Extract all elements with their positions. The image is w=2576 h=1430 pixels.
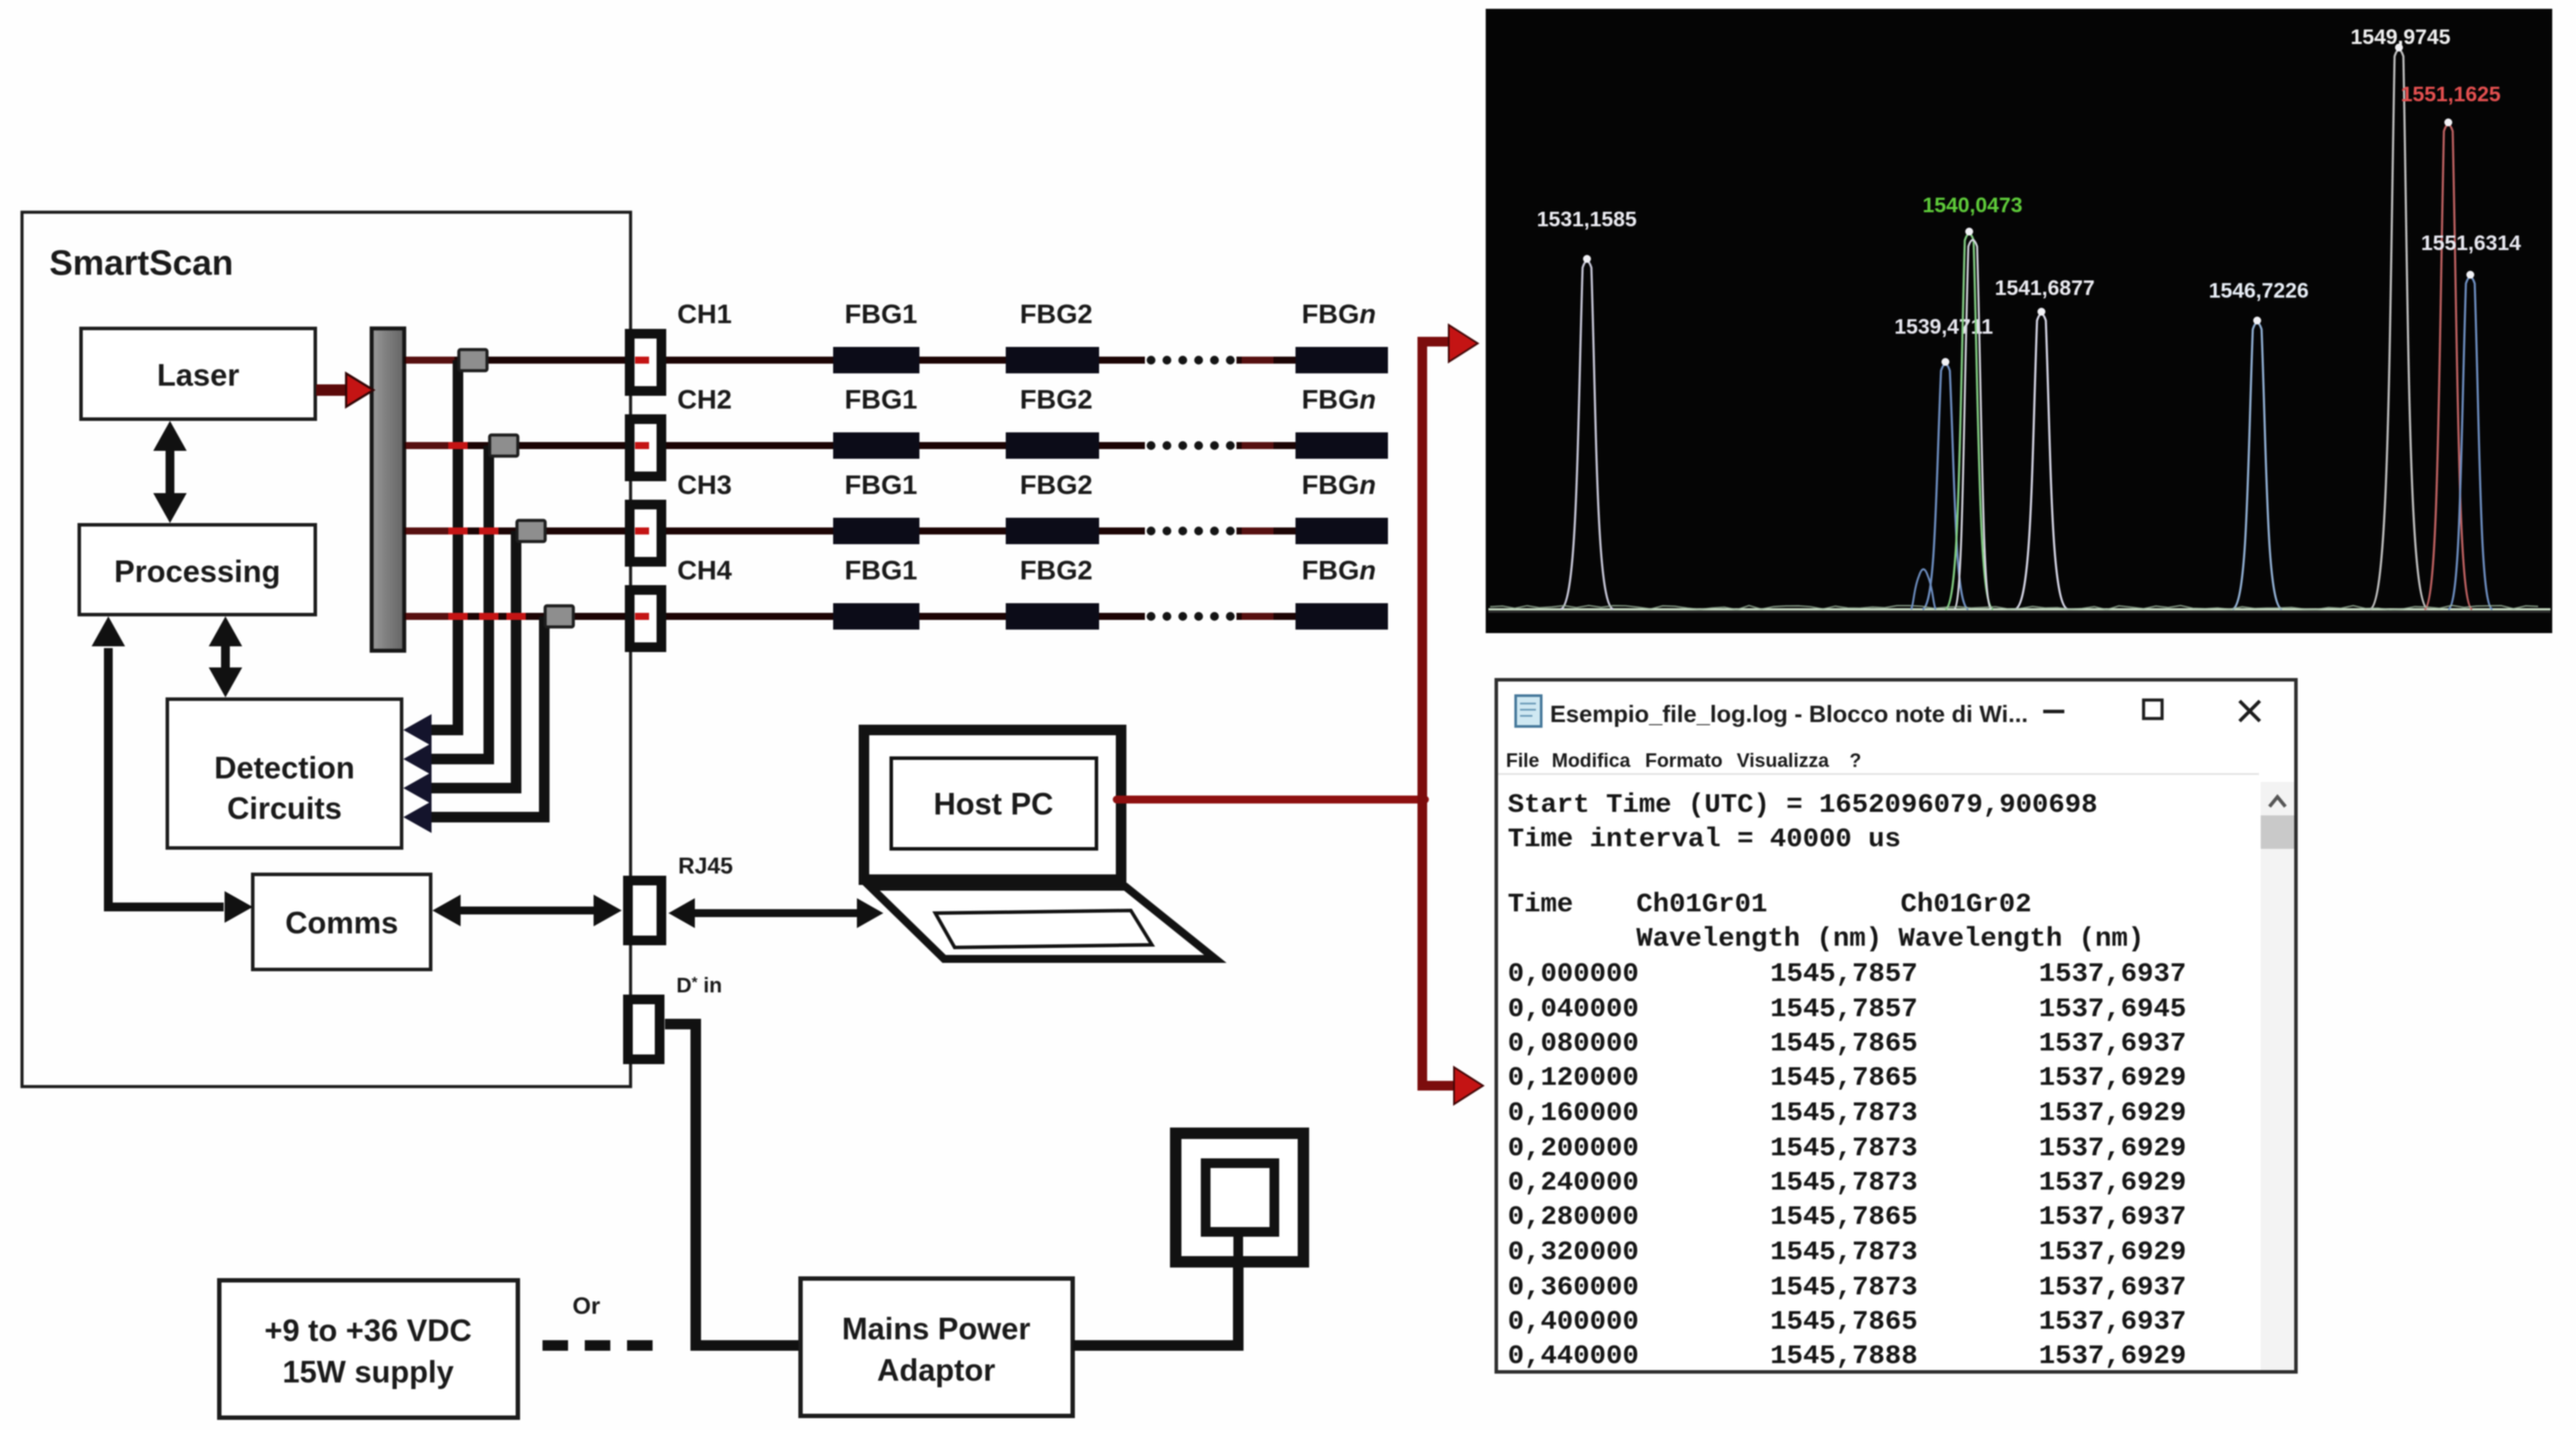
red crossing marks CH4 bbox=[448, 613, 526, 620]
white trace overlapping green peak bbox=[1954, 240, 1991, 610]
spectrum peak 1541,6877 bbox=[1995, 276, 2094, 609]
dots continuation CH2 bbox=[1147, 441, 1235, 450]
svg-text:D* in: D* in bbox=[676, 974, 722, 998]
svg-text:Circuits: Circuits bbox=[227, 792, 342, 826]
svg-text:0,240000: 0,240000 bbox=[1508, 1168, 1639, 1198]
dashed wire Or bbox=[543, 1340, 668, 1351]
svg-text:1551,6314: 1551,6314 bbox=[2421, 232, 2521, 255]
wire Mains Power Adaptor to wall plug bbox=[1073, 1255, 1238, 1345]
wire fibre channel CH2 bbox=[404, 442, 1295, 449]
arrow Processing-Detection bbox=[209, 616, 242, 697]
labels FBG1 FBG2 FBGn row 4 bbox=[845, 555, 1376, 586]
Notepad icon bbox=[1516, 696, 1541, 726]
spectrum peak 1549,9745 bbox=[2351, 26, 2450, 609]
svg-text:0,200000: 0,200000 bbox=[1508, 1133, 1639, 1164]
svg-text:1537,6937: 1537,6937 bbox=[2039, 959, 2186, 990]
spectrum peak 1539,4711 bbox=[1894, 315, 1993, 609]
svg-text:0,360000: 0,360000 bbox=[1508, 1272, 1639, 1303]
svg-text:Comms: Comms bbox=[285, 906, 398, 940]
svg-text:Visualizza: Visualizza bbox=[1737, 749, 1830, 771]
svg-text:1541,6877: 1541,6877 bbox=[1995, 276, 2094, 300]
svg-text:RJ45: RJ45 bbox=[678, 852, 733, 879]
svg-text:Mains Power: Mains Power bbox=[842, 1312, 1030, 1346]
svg-text:1545,7873: 1545,7873 bbox=[1770, 1272, 1917, 1303]
svg-text:0,120000: 0,120000 bbox=[1508, 1063, 1639, 1094]
svg-text:1537,6937: 1537,6937 bbox=[2039, 1307, 2186, 1338]
labels FBG1 FBG2 FBGn row 1 bbox=[845, 299, 1376, 329]
svg-text:Modifica: Modifica bbox=[1552, 749, 1631, 771]
svg-text:1537,6937: 1537,6937 bbox=[2039, 1272, 2186, 1303]
Notepad title bbox=[1550, 701, 2028, 727]
red crossing marks CH2 bbox=[448, 442, 468, 449]
svg-text:?: ? bbox=[1849, 749, 1861, 771]
wire return fibre CH2 to Detection Circuits bbox=[403, 446, 489, 775]
svg-text:1537,6937: 1537,6937 bbox=[2039, 1028, 2186, 1059]
spectrum peak 1551,6314 bbox=[2421, 232, 2521, 609]
svg-text:0,040000: 0,040000 bbox=[1508, 994, 1639, 1025]
optical splitter bar bbox=[372, 328, 404, 651]
svg-text:1549,9745: 1549,9745 bbox=[2351, 26, 2450, 49]
Notepad data rows bbox=[1508, 959, 2186, 1372]
svg-text:0,280000: 0,280000 bbox=[1508, 1202, 1639, 1233]
svg-text:FBG2: FBG2 bbox=[1020, 555, 1093, 586]
ferrule connector CH1 bbox=[459, 350, 487, 371]
spectrum analyser display bbox=[1486, 9, 2552, 633]
wire fibre channel CH1 bbox=[404, 357, 1295, 364]
spectrum peak 1540,0473 bbox=[1923, 194, 2022, 609]
wire Detection/Comms feedback loop to Processing bbox=[92, 616, 253, 923]
spectrum baseline bbox=[1488, 609, 2550, 612]
svg-text:1545,7873: 1545,7873 bbox=[1770, 1237, 1917, 1268]
bulkhead connector CH3 bbox=[630, 505, 661, 562]
svg-text:FBG1: FBG1 bbox=[845, 469, 918, 500]
SmartScan enclosure box bbox=[22, 212, 631, 1087]
label CH4 bbox=[677, 555, 733, 586]
svg-text:1545,7865: 1545,7865 bbox=[1770, 1307, 1917, 1338]
label CH3 bbox=[677, 469, 732, 500]
svg-text:1537,6929: 1537,6929 bbox=[2039, 1168, 2186, 1198]
svg-text:FBG2: FBG2 bbox=[1020, 299, 1093, 329]
svg-text:FBGn: FBGn bbox=[1302, 384, 1376, 415]
svg-text:FBGn: FBGn bbox=[1302, 555, 1376, 586]
svg-text:File: File bbox=[1506, 749, 1539, 771]
svg-text:0,080000: 0,080000 bbox=[1508, 1028, 1639, 1059]
labels FBG1 FBG2 FBGn row 3 bbox=[845, 469, 1376, 500]
Notepad minimize button bbox=[2043, 710, 2064, 713]
svg-text:CH3: CH3 bbox=[677, 469, 732, 500]
svg-text:0,000000: 0,000000 bbox=[1508, 959, 1639, 990]
label RJ45 bbox=[678, 852, 733, 879]
red wire Host PC to displays bbox=[1117, 325, 1483, 1104]
svg-text:Formato: Formato bbox=[1645, 749, 1723, 771]
svg-text:Laser: Laser bbox=[157, 358, 240, 393]
dots continuation CH1 bbox=[1147, 356, 1235, 365]
red arrow Laser to splitter bbox=[316, 373, 373, 407]
svg-text:1545,7865: 1545,7865 bbox=[1770, 1202, 1917, 1233]
svg-text:FBG1: FBG1 bbox=[845, 299, 918, 329]
label CH1 bbox=[677, 299, 732, 329]
FBG blocks CH2 bbox=[833, 432, 1388, 459]
svg-text:0,400000: 0,400000 bbox=[1508, 1307, 1639, 1338]
spectrum peak 1531,1585 bbox=[1537, 208, 1636, 609]
svg-text:1540,0473: 1540,0473 bbox=[1923, 194, 2022, 217]
svg-text:Processing: Processing bbox=[114, 555, 281, 589]
svg-text:CH1: CH1 bbox=[677, 299, 732, 329]
svg-text:1545,7873: 1545,7873 bbox=[1770, 1098, 1917, 1129]
svg-text:FBG2: FBG2 bbox=[1020, 469, 1093, 500]
label DC in bbox=[676, 974, 722, 998]
Notepad maximize button bbox=[2144, 700, 2162, 719]
ferrule connector CH3 bbox=[517, 520, 545, 542]
small residual bump bbox=[1911, 570, 1936, 610]
label SmartScan bbox=[49, 244, 233, 283]
svg-text:SmartScan: SmartScan bbox=[49, 244, 233, 283]
svg-text:FBG1: FBG1 bbox=[845, 384, 918, 415]
spectrum peak 1546,7226 bbox=[2209, 279, 2308, 609]
svg-text:1537,6929: 1537,6929 bbox=[2039, 1098, 2186, 1129]
baseline noise bbox=[1490, 606, 2538, 610]
block +9 to +36 VDC 15W supply bbox=[219, 1280, 518, 1418]
FBG blocks CH1 bbox=[833, 347, 1388, 373]
svg-text:1531,1585: 1531,1585 bbox=[1537, 208, 1636, 232]
svg-text:Detection: Detection bbox=[214, 751, 354, 785]
arrow RJ45-HostPC bbox=[668, 898, 883, 928]
Notepad table header bbox=[1508, 889, 2144, 955]
svg-text:Wavelength (nm) Wavelength (nm: Wavelength (nm) Wavelength (nm) bbox=[1636, 924, 2144, 955]
svg-text:Adaptor: Adaptor bbox=[877, 1353, 996, 1388]
svg-text:Or: Or bbox=[572, 1293, 601, 1319]
svg-text:Start Time (UTC) = 1652096079,: Start Time (UTC) = 1652096079,900698 bbox=[1508, 790, 2098, 821]
svg-text:Ch01Gr02: Ch01Gr02 bbox=[1901, 889, 2032, 920]
svg-text:FBGn: FBGn bbox=[1302, 469, 1376, 500]
svg-text:1537,6929: 1537,6929 bbox=[2039, 1237, 2186, 1268]
Notepad scrollbar bbox=[2261, 782, 2294, 1370]
svg-text:15W supply: 15W supply bbox=[283, 1355, 454, 1389]
svg-text:0,440000: 0,440000 bbox=[1508, 1341, 1639, 1372]
Notepad close button bbox=[2240, 701, 2260, 721]
svg-text:CH2: CH2 bbox=[677, 384, 732, 415]
wire fibre channel CH3 bbox=[404, 527, 1295, 534]
bulkhead connector CH2 bbox=[630, 419, 661, 476]
wall plug socket symbol bbox=[1176, 1133, 1303, 1262]
bulkhead connector CH1 bbox=[630, 334, 661, 391]
svg-text:1545,7865: 1545,7865 bbox=[1770, 1063, 1917, 1094]
Host PC laptop base bbox=[870, 887, 1215, 959]
dots continuation CH3 bbox=[1147, 527, 1235, 535]
svg-text:1537,6937: 1537,6937 bbox=[2039, 1202, 2186, 1233]
svg-text:1551,1625: 1551,1625 bbox=[2401, 83, 2500, 107]
svg-text:1545,7873: 1545,7873 bbox=[1770, 1133, 1917, 1164]
svg-text:1545,7857: 1545,7857 bbox=[1770, 994, 1917, 1025]
block Processing bbox=[79, 525, 315, 615]
svg-text:FBG1: FBG1 bbox=[845, 555, 918, 586]
FBG blocks CH3 bbox=[833, 518, 1388, 544]
svg-text:1545,7873: 1545,7873 bbox=[1770, 1168, 1917, 1198]
svg-text:Ch01Gr01: Ch01Gr01 bbox=[1636, 889, 1768, 920]
svg-text:0,320000: 0,320000 bbox=[1508, 1237, 1639, 1268]
label Or bbox=[572, 1293, 601, 1319]
svg-text:Time interval = 40000 us: Time interval = 40000 us bbox=[1508, 824, 1901, 855]
svg-text:+9 to +36 VDC: +9 to +36 VDC bbox=[264, 1314, 471, 1348]
bulkhead connector CH4 bbox=[630, 590, 661, 647]
Notepad window frame bbox=[1496, 680, 2296, 1372]
wire fibre channel CH4 bbox=[404, 613, 1295, 620]
wire return fibre CH1 to Detection Circuits bbox=[403, 360, 458, 746]
block Mains Power Adaptor bbox=[801, 1279, 1073, 1416]
Notepad menu separator bbox=[1498, 773, 2259, 775]
block Comms bbox=[253, 874, 431, 969]
svg-text:1537,6945: 1537,6945 bbox=[2039, 994, 2186, 1025]
ferrule connector CH4 bbox=[545, 606, 573, 627]
svg-text:1545,7888: 1545,7888 bbox=[1770, 1341, 1917, 1372]
svg-text:1545,7857: 1545,7857 bbox=[1770, 959, 1917, 990]
spectrum peak 1551,1625 bbox=[2401, 83, 2500, 609]
svg-text:FBG2: FBG2 bbox=[1020, 384, 1093, 415]
Host PC laptop screen bbox=[864, 730, 1121, 880]
label CH2 bbox=[677, 384, 732, 415]
Notepad header text bbox=[1508, 790, 2098, 855]
svg-text:CH4: CH4 bbox=[677, 555, 733, 586]
red crossing marks CH3 bbox=[448, 527, 498, 534]
svg-text:Host PC: Host PC bbox=[934, 787, 1053, 822]
svg-text:1545,7865: 1545,7865 bbox=[1770, 1028, 1917, 1059]
svg-text:1537,6929: 1537,6929 bbox=[2039, 1063, 2186, 1094]
svg-text:FBGn: FBGn bbox=[1302, 299, 1376, 329]
block Detection Circuits bbox=[167, 699, 402, 848]
ferrule connector CH2 bbox=[490, 435, 518, 456]
svg-text:1546,7226: 1546,7226 bbox=[2209, 279, 2308, 303]
svg-text:1537,6929: 1537,6929 bbox=[2039, 1133, 2186, 1164]
connector RJ45 bbox=[628, 881, 661, 940]
Notepad menu bar bbox=[1506, 749, 1861, 771]
block Laser bbox=[81, 328, 315, 419]
svg-text:1537,6929: 1537,6929 bbox=[2039, 1341, 2186, 1372]
labels FBG1 FBG2 FBGn row 2 bbox=[845, 384, 1376, 415]
dots continuation CH4 bbox=[1147, 612, 1235, 621]
svg-text:0,160000: 0,160000 bbox=[1508, 1098, 1639, 1129]
wire return fibre CH3 to Detection Circuits bbox=[403, 531, 516, 804]
wire DC in to mains junction bbox=[665, 1024, 801, 1345]
arrow Laser-Processing bbox=[153, 421, 187, 523]
FBG blocks CH4 bbox=[833, 603, 1388, 630]
arrow Comms-RJ45 bbox=[432, 895, 622, 926]
svg-text:Esempio_file_log.log - Blocco: Esempio_file_log.log - Blocco note di Wi… bbox=[1550, 701, 2028, 727]
svg-text:Time: Time bbox=[1508, 889, 1573, 920]
wire return fibre CH4 to Detection Circuits bbox=[403, 616, 544, 833]
connector DC in bbox=[628, 999, 660, 1059]
